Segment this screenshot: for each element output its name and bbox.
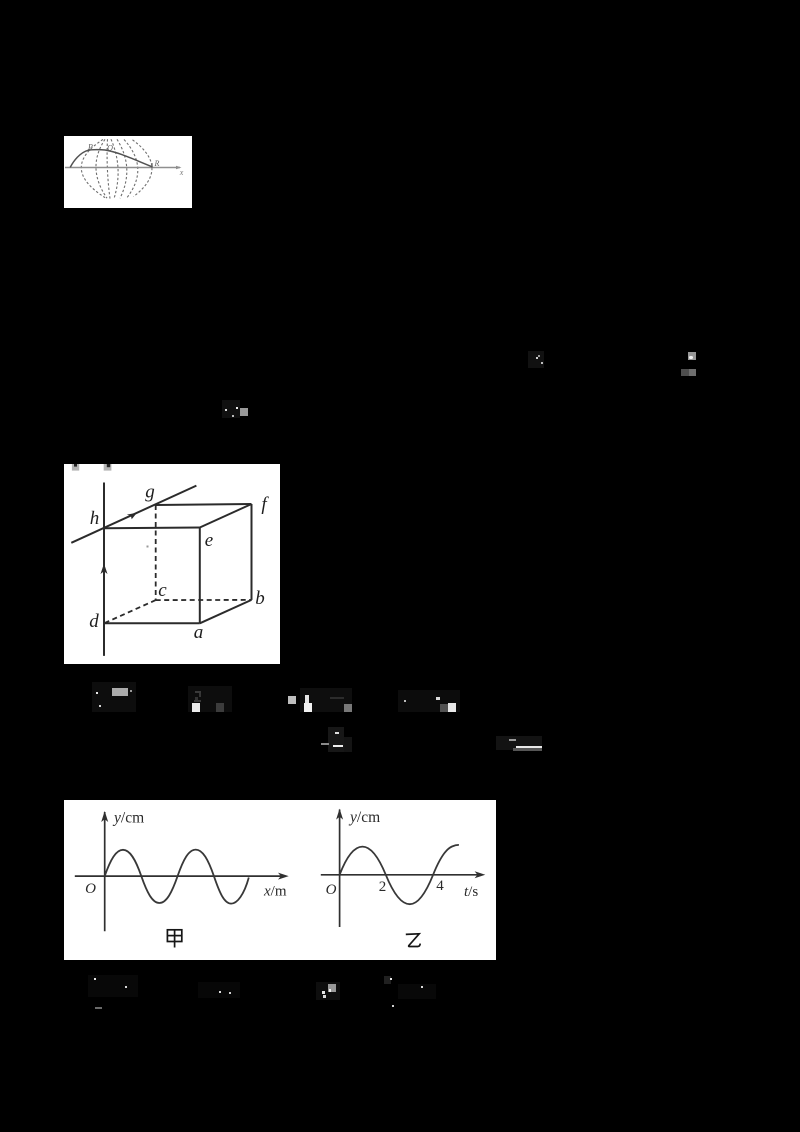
dashed cube edge g to c bbox=[155, 505, 157, 600]
svg-text:g: g bbox=[145, 482, 155, 503]
cube edge h to e-corner (front top) bbox=[104, 527, 201, 530]
dashed meridian arc 6 bbox=[124, 140, 138, 198]
dashed meridian arc 2 bbox=[96, 139, 107, 198]
wave pulse curve bbox=[70, 150, 152, 168]
svg-text:d: d bbox=[89, 611, 99, 632]
left graph y axis arrowhead bbox=[101, 811, 108, 822]
figure 3: two waveform graphs jia and yi bbox=[64, 800, 496, 960]
dashed meridian arc 4 bbox=[111, 139, 118, 198]
svg-text:t/s: t/s bbox=[464, 884, 478, 900]
faint formula remnant region C bbox=[222, 400, 240, 418]
cube edge e-corner to f bbox=[200, 504, 252, 528]
dashed meridian arc 1 bbox=[81, 139, 105, 197]
right graph y axis arrowhead bbox=[336, 809, 343, 820]
scan artifact black tab 2 bbox=[107, 464, 110, 467]
right graph t axis arrowhead bbox=[475, 871, 486, 878]
faint option row D2 bbox=[188, 686, 232, 712]
faint formula remnant region B bbox=[688, 352, 696, 360]
svg-text:e: e bbox=[205, 530, 213, 551]
x axis arrowhead bbox=[176, 166, 182, 170]
cube edge d to a (front bottom) bbox=[104, 622, 200, 624]
cube edge f to b (back right vertical) bbox=[251, 504, 253, 600]
svg-text:h: h bbox=[90, 508, 100, 529]
right graph t axis bbox=[321, 874, 481, 876]
scan artifact gray square 1 bbox=[72, 464, 79, 471]
x axis bbox=[65, 167, 180, 169]
svg-text:4: 4 bbox=[436, 878, 444, 894]
up arrowhead on vertical line bbox=[101, 564, 108, 575]
faint formula remnant region A bbox=[528, 351, 544, 368]
cube edge front right vertical bbox=[199, 528, 201, 624]
vertical line through d and h bbox=[103, 483, 105, 656]
svg-text:f: f bbox=[261, 494, 269, 515]
svg-text:O: O bbox=[326, 882, 337, 898]
svg-text:c: c bbox=[158, 580, 167, 601]
cube edge a to b bbox=[200, 600, 252, 623]
svg-text:O: O bbox=[85, 881, 96, 897]
svg-text:x/m: x/m bbox=[263, 884, 287, 900]
left graph sine wave bbox=[105, 850, 249, 904]
scan artifact gray square 2 bbox=[104, 464, 112, 471]
left graph y axis bbox=[104, 812, 106, 931]
faint fraction region E bbox=[328, 727, 344, 752]
scan artifact dot bbox=[147, 546, 149, 548]
svg-text:y/cm: y/cm bbox=[112, 810, 144, 827]
arrowhead on diagonal line bbox=[127, 513, 137, 520]
dashed meridian arc 5 bbox=[117, 139, 127, 198]
faint formula region F bbox=[496, 736, 542, 750]
figure 2: cube a b c d e f g h with line and arrow bbox=[64, 464, 280, 664]
svg-text:x: x bbox=[179, 168, 184, 177]
faint option row G3 bbox=[316, 982, 340, 1000]
svg-text:P: P bbox=[87, 143, 93, 152]
dashed meridian arc 7 bbox=[133, 140, 152, 197]
right graph y axis bbox=[339, 810, 341, 928]
svg-text:2: 2 bbox=[379, 879, 387, 895]
dashed cube edge c to d bbox=[104, 600, 156, 623]
faint option row D4 bbox=[398, 690, 460, 712]
left caption jia bbox=[167, 930, 181, 948]
faint option row G2 bbox=[198, 982, 240, 998]
scan artifact black tab 1 bbox=[74, 464, 77, 467]
svg-text:a: a bbox=[194, 622, 204, 643]
svg-text:Q: Q bbox=[107, 144, 113, 153]
diagonal line through h and g bbox=[71, 486, 196, 543]
left graph x axis bbox=[75, 875, 284, 877]
left graph x axis arrowhead bbox=[278, 873, 289, 880]
faint option row G4 bbox=[398, 984, 436, 999]
right graph sine wave bbox=[340, 845, 459, 904]
faint option row D1 bbox=[92, 682, 136, 712]
faint option row G1 bbox=[88, 975, 138, 997]
dashed meridian arc 3 bbox=[107, 139, 110, 198]
dashed cube edge c to b bbox=[156, 599, 252, 601]
svg-text:R: R bbox=[154, 159, 160, 168]
figure 1: wave pulse with dashed meridian field lines bbox=[64, 136, 192, 208]
cube edge g to f (back top) bbox=[156, 504, 252, 505]
faint option row D3 bbox=[300, 688, 352, 712]
svg-text:b: b bbox=[255, 588, 265, 609]
svg-text:y/cm: y/cm bbox=[348, 809, 380, 826]
tick at R bbox=[151, 163, 153, 168]
right caption yi bbox=[406, 934, 420, 947]
